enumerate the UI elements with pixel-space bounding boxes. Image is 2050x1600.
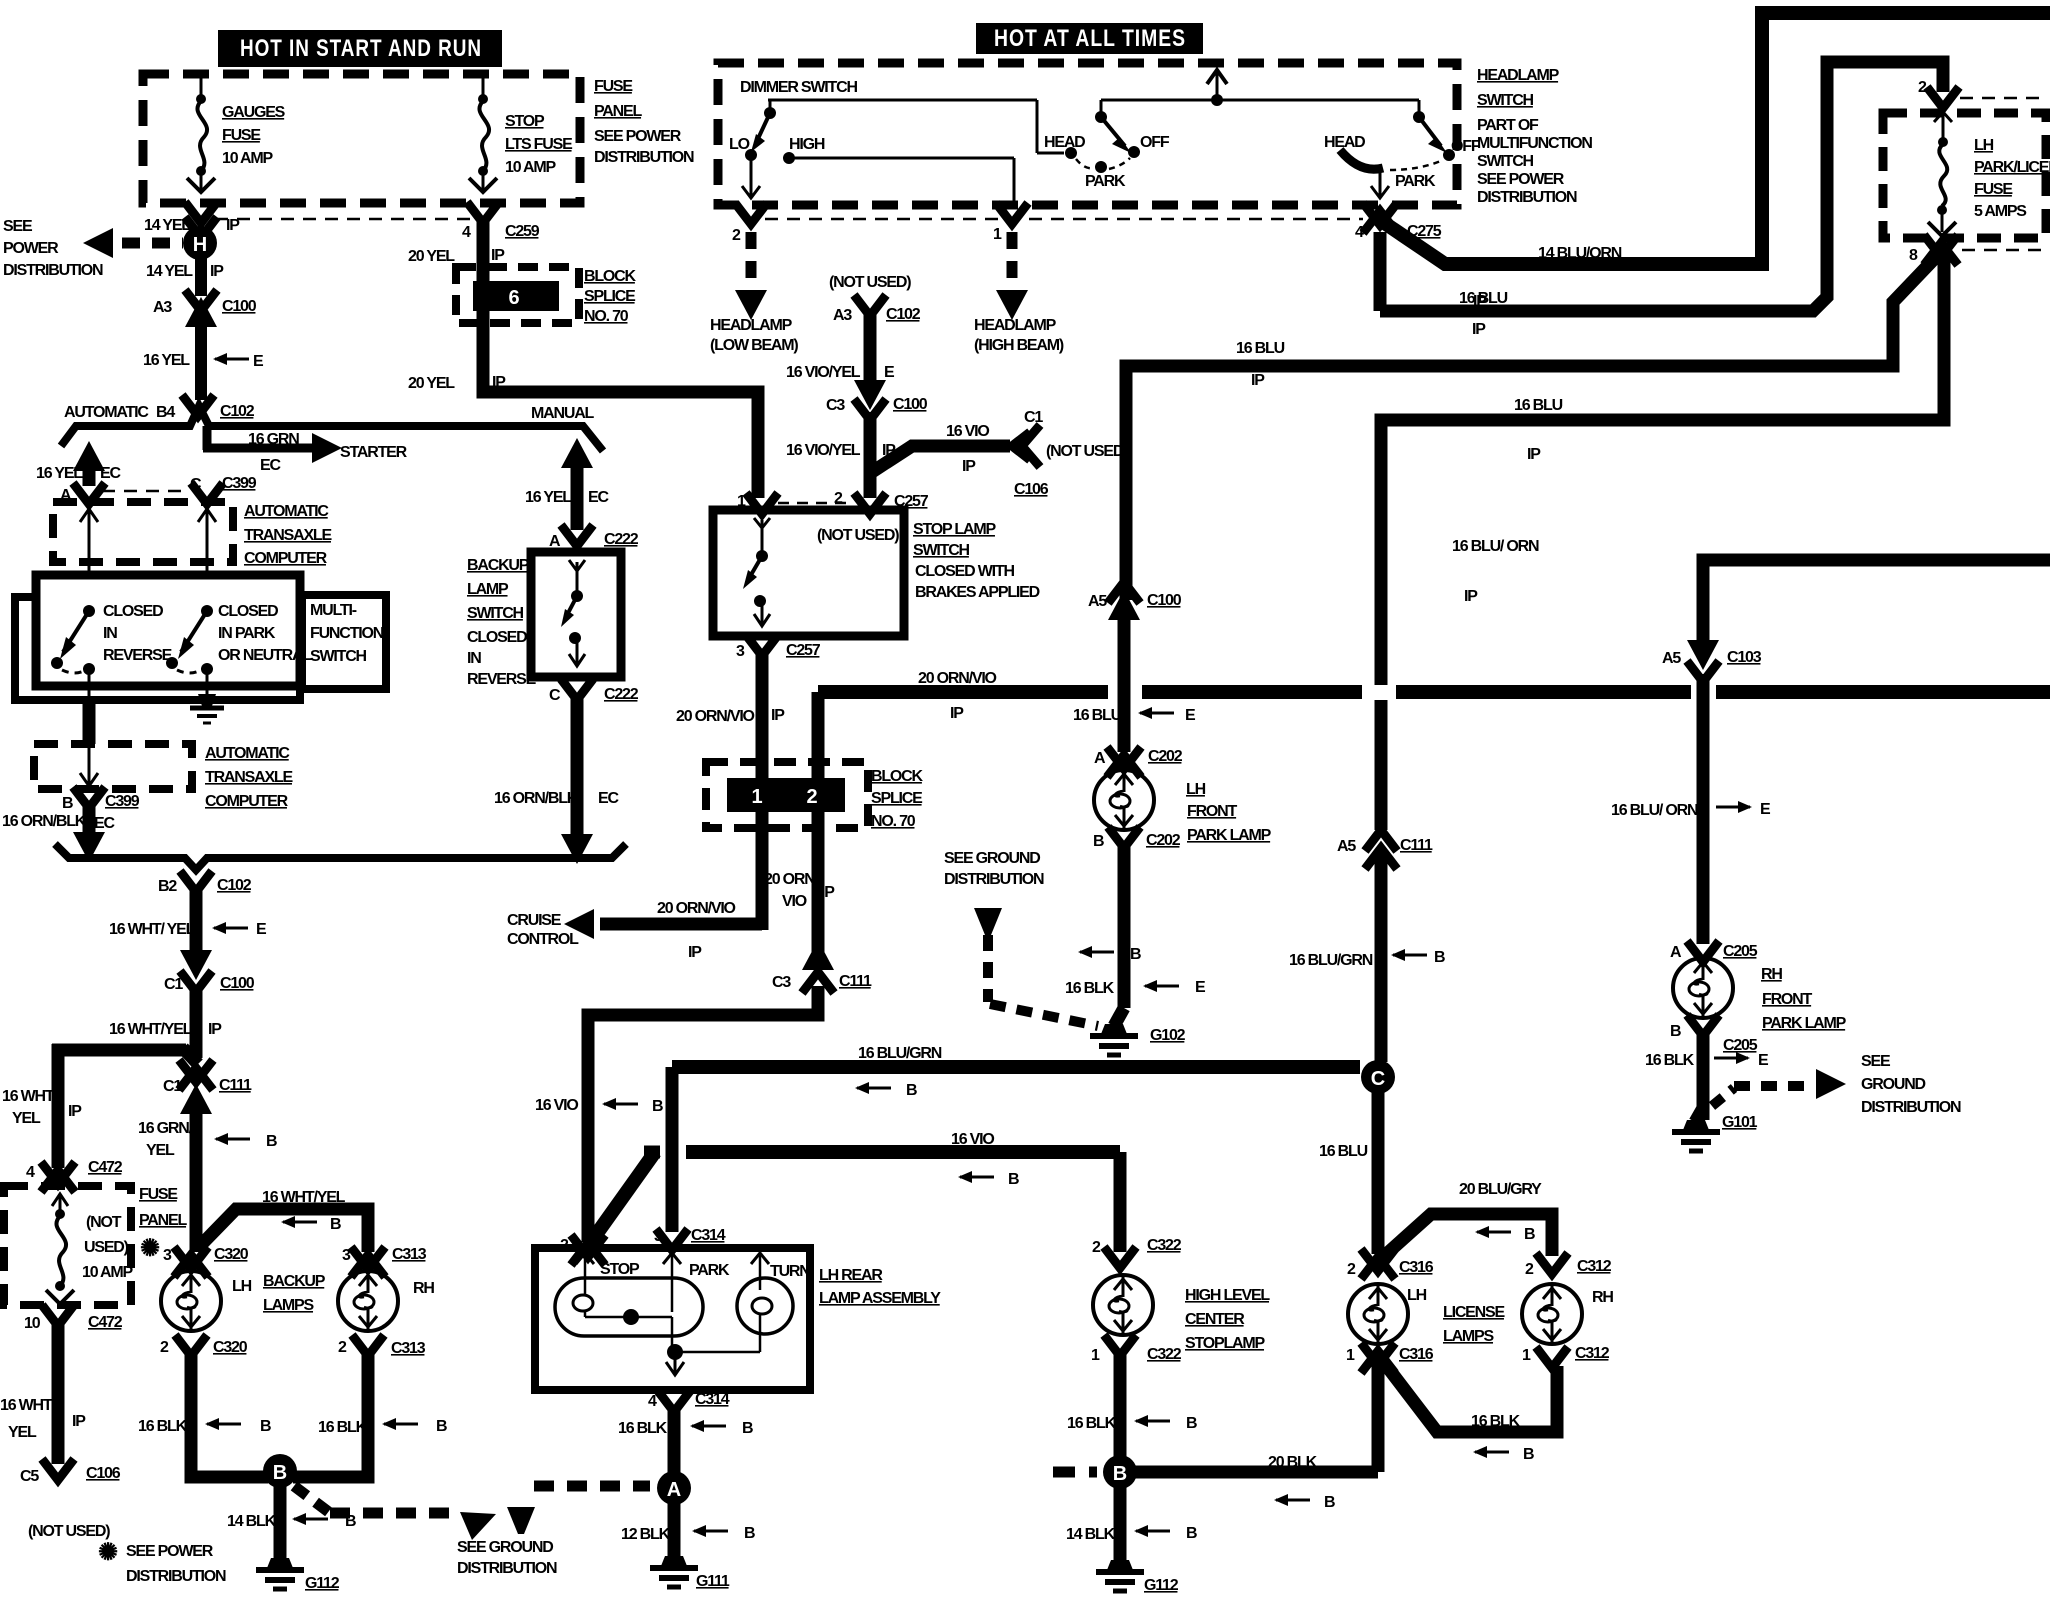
connector 10 C472: [24, 1305, 123, 1332]
svg-text:16 BLU: 16 BLU: [1073, 707, 1122, 724]
label closed in park or neutral: [218, 603, 312, 664]
connector C C399: [190, 475, 257, 504]
stop lts fuse F2: [469, 76, 497, 192]
svg-text:TRANSAXLE: TRANSAXLE: [205, 769, 294, 786]
svg-text:SWITCH: SWITCH: [1477, 153, 1534, 170]
svg-text:SPLICE: SPLICE: [584, 288, 636, 305]
label backup lamps: [263, 1273, 326, 1314]
svg-text:16 ORN/BLK: 16 ORN/BLK: [2, 813, 87, 830]
svg-text:TURN: TURN: [770, 1263, 810, 1280]
svg-text:20 YEL: 20 YEL: [408, 248, 455, 265]
svg-text:B: B: [1113, 1463, 1127, 1485]
svg-text:B: B: [744, 1525, 755, 1542]
svg-text:G102: G102: [1150, 1027, 1186, 1044]
svg-text:G101: G101: [1722, 1114, 1758, 1131]
svg-text:COMPUTER: COMPUTER: [205, 793, 289, 810]
svg-text:C1: C1: [164, 976, 183, 993]
svg-text:6: 6: [508, 287, 519, 309]
svg-text:16 VIO: 16 VIO: [535, 1097, 578, 1114]
svg-text:16 YEL: 16 YEL: [143, 352, 190, 369]
svg-text:B: B: [266, 1133, 277, 1150]
label block splice no 70: [871, 768, 924, 830]
svg-text:STOP: STOP: [600, 1261, 640, 1278]
svg-text:STOP: STOP: [505, 113, 545, 130]
svg-text:MANUAL: MANUAL: [531, 405, 595, 422]
svg-text:USED): USED): [84, 1239, 129, 1256]
wire 16 ORN/BLK EC: [2, 806, 115, 862]
svg-text:FUSE: FUSE: [139, 1186, 178, 1203]
switch closed in reverse: [51, 605, 95, 700]
wire 16 BLU to fuse pin2: [1380, 62, 1943, 338]
label 12 BLK B: [621, 1525, 755, 1543]
dashed link A-C: [102, 490, 186, 493]
label 16 WHT/YEL IP left: [2, 1088, 82, 1127]
svg-text:NO. 70: NO. 70: [871, 813, 916, 830]
svg-text:B: B: [1186, 1525, 1197, 1542]
svg-text:IN: IN: [467, 650, 481, 667]
svg-text:SWITCH: SWITCH: [310, 648, 367, 665]
label LH rear lamp assembly: [819, 1267, 941, 1307]
fuse not used 10 amp: [46, 1194, 74, 1304]
svg-text:C322: C322: [1147, 1237, 1182, 1254]
svg-text:LAMPS: LAMPS: [1443, 1328, 1495, 1345]
svg-text:C313: C313: [391, 1340, 426, 1357]
dashed box automatic transaxle computer (top): [53, 502, 233, 562]
wire 16 GRN/YEL B: [138, 1108, 277, 1252]
connector 2 C314: [560, 1235, 650, 1265]
backup lamp switch box: [531, 552, 621, 677]
svg-text:E: E: [1185, 707, 1196, 724]
svg-text:SPLICE: SPLICE: [871, 790, 923, 807]
wire 14 BLU/ORN top right: [1383, 13, 2050, 310]
svg-text:FRONT: FRONT: [1762, 991, 1813, 1008]
branch 16 VIO C1 not used: [872, 409, 1128, 498]
wire 16 BLU/ORN: [1452, 538, 2050, 645]
svg-text:HEAD: HEAD: [1324, 134, 1365, 151]
svg-text:CENTER: CENTER: [1185, 1311, 1245, 1328]
svg-text:2: 2: [338, 1339, 347, 1356]
svg-text:LO: LO: [729, 136, 750, 153]
svg-text:(NOT USED): (NOT USED): [1046, 443, 1128, 460]
svg-text:E: E: [253, 353, 264, 370]
svg-text:14 BLK: 14 BLK: [1066, 1526, 1116, 1543]
headlamp low beam dashed arrow: [710, 232, 798, 354]
svg-text:10 AMP: 10 AMP: [222, 150, 274, 167]
svg-text:C322: C322: [1147, 1346, 1182, 1363]
cruise control branch: [507, 900, 762, 961]
svg-text:16 BLU/GRN: 16 BLU/GRN: [858, 1045, 942, 1062]
svg-text:C102: C102: [217, 877, 252, 894]
svg-text:C1: C1: [1024, 409, 1043, 426]
svg-text:C472: C472: [88, 1159, 123, 1176]
label fuse panel star: [139, 1186, 187, 1262]
svg-text:DISTRIBUTION: DISTRIBUTION: [1477, 189, 1577, 206]
connector 2 below dimmer: [732, 203, 767, 244]
svg-text:C100: C100: [893, 396, 928, 413]
svg-text:B: B: [1434, 949, 1445, 966]
connector C3 C111: [772, 940, 872, 993]
svg-text:PARK LAMP: PARK LAMP: [1187, 827, 1272, 844]
manual branch arrow 16 YEL EC: [525, 438, 609, 530]
thin dashed connector line: [215, 218, 470, 221]
svg-text:(NOT USED): (NOT USED): [817, 527, 899, 544]
headlamp switch contacts right: [1324, 100, 1481, 198]
svg-text:3: 3: [342, 1247, 351, 1264]
labels 20 ORN VIO IP below splice: [764, 871, 835, 910]
wire 16 VIO/YEL E: [786, 312, 895, 386]
wire 16 BLK to G102: [1065, 842, 1206, 1026]
svg-text:IP: IP: [688, 944, 702, 961]
svg-text:DISTRIBUTION: DISTRIBUTION: [3, 262, 103, 279]
svg-text:PART OF: PART OF: [1477, 117, 1539, 134]
svg-text:5 AMPS: 5 AMPS: [1974, 203, 2027, 220]
connector 8: [1909, 235, 2046, 265]
wire 16 BLU E: [1073, 614, 1196, 752]
svg-text:B: B: [1523, 1446, 1534, 1463]
svg-text:16 BLU/ ORN: 16 BLU/ ORN: [1611, 802, 1698, 819]
title bar HOT IN START AND RUN: [218, 30, 502, 67]
svg-text:C399: C399: [222, 475, 257, 492]
svg-text:2: 2: [1525, 1261, 1534, 1278]
svg-text:G112: G112: [1144, 1577, 1179, 1594]
splice A: [657, 1471, 691, 1505]
svg-text:16 GRN/: 16 GRN/: [138, 1120, 194, 1137]
dashed arrow SEE POWER DISTRIBUTION: [83, 228, 183, 258]
svg-text:20 ORN/VIO: 20 ORN/VIO: [918, 670, 997, 687]
label LH front park lamp: [1186, 781, 1272, 844]
connector 3 C314: [654, 1227, 726, 1250]
svg-text:G111: G111: [696, 1573, 730, 1590]
wire 20 BLU/GRY: [1382, 1181, 1552, 1258]
svg-text:COMPUTER: COMPUTER: [244, 550, 328, 567]
svg-text:B: B: [1093, 833, 1104, 850]
connector 2 C316: [1347, 1249, 1434, 1279]
ground G112: [256, 1558, 340, 1592]
svg-text:SEE GROUND: SEE GROUND: [457, 1539, 553, 1556]
svg-text:LAMP ASSEMBLY: LAMP ASSEMBLY: [819, 1290, 941, 1307]
svg-text:EC: EC: [588, 489, 609, 506]
svg-text:REVERSE: REVERSE: [467, 671, 537, 688]
wire 20 ORN/VIO IP down: [676, 652, 785, 930]
svg-text:EC: EC: [94, 815, 115, 832]
wire 16 WHT/YEL IP: [109, 988, 222, 1058]
wire 16 BLU from pin8 to LH park lamp: [1126, 256, 1937, 600]
connector 4 C472: [26, 1159, 123, 1192]
svg-text:10: 10: [24, 1315, 41, 1332]
svg-text:IP: IP: [68, 1103, 82, 1120]
svg-text:LICENSE: LICENSE: [1443, 1304, 1505, 1321]
svg-text:SEE POWER: SEE POWER: [594, 128, 682, 145]
connector C C222: [549, 679, 639, 704]
stop lamp switch box: [713, 510, 904, 636]
svg-text:PARK: PARK: [1395, 173, 1436, 190]
svg-text:REVERSE: REVERSE: [103, 647, 173, 664]
connector 4 C259 below stop fuse: [462, 202, 540, 241]
svg-text:16 BLU/GRN: 16 BLU/GRN: [1289, 952, 1373, 969]
svg-text:SEE: SEE: [3, 218, 33, 235]
svg-text:B: B: [1670, 1023, 1681, 1040]
svg-text:C: C: [549, 687, 561, 704]
svg-text:HIGH LEVEL: HIGH LEVEL: [1185, 1287, 1270, 1304]
svg-text:C100: C100: [220, 975, 255, 992]
svg-text:4: 4: [1355, 224, 1364, 241]
RH license lamp: [1522, 1284, 1613, 1344]
svg-text:C205: C205: [1723, 943, 1758, 960]
wire 16 YEL: [143, 325, 264, 400]
wire 16 BLK to A: [618, 1408, 753, 1560]
svg-text:12 BLK: 12 BLK: [621, 1526, 671, 1543]
svg-text:IP: IP: [491, 247, 505, 264]
wire 14 YEL: [146, 258, 224, 296]
svg-text:FUSE: FUSE: [594, 78, 633, 95]
svg-text:16 BLU: 16 BLU: [1514, 397, 1563, 414]
label stop lamp switch: [913, 521, 1040, 601]
svg-text:AUTOMATIC: AUTOMATIC: [244, 503, 329, 520]
svg-text:16 ORN/BLK: 16 ORN/BLK: [494, 790, 579, 807]
svg-text:PANEL: PANEL: [594, 103, 642, 120]
svg-text:IP: IP: [210, 263, 224, 280]
svg-text:14 YEL: 14 YEL: [144, 217, 191, 234]
20 ORN/VIO horizontal wire: [818, 670, 2050, 722]
svg-text:LH: LH: [232, 1278, 252, 1295]
svg-text:C202: C202: [1148, 748, 1183, 765]
label automatic transaxle computer 2: [205, 745, 294, 810]
svg-text:B: B: [1130, 946, 1141, 963]
svg-text:IP: IP: [1527, 446, 1541, 463]
svg-text:2: 2: [806, 786, 817, 808]
svg-text:SWITCH: SWITCH: [913, 542, 970, 559]
elbow to 16 VIO column: [588, 986, 818, 1242]
svg-text:1: 1: [1522, 1347, 1531, 1364]
connector 1 C316: [1346, 1343, 1434, 1373]
diagonal wire 16 WHT/YEL to RH: [199, 1189, 368, 1252]
label LH park/license fuse 5 amps: [1974, 137, 2050, 220]
headlamp high beam dashed arrow: [974, 232, 1064, 354]
label RH front park lamp: [1761, 966, 1847, 1032]
svg-text:FUSE: FUSE: [222, 127, 261, 144]
svg-text:16 WHT/ YEL: 16 WHT/ YEL: [109, 921, 196, 938]
connector C5 C106: [20, 1459, 121, 1540]
connector 2 C320: [160, 1335, 248, 1356]
svg-text:16 YEL: 16 YEL: [36, 465, 83, 482]
title bar HOT AT ALL TIMES: [976, 23, 1203, 54]
svg-text:PARK: PARK: [689, 1262, 730, 1279]
svg-text:(HIGH BEAM): (HIGH BEAM): [974, 337, 1064, 354]
RH backup lamp: [338, 1271, 434, 1331]
svg-text:SEE GROUND: SEE GROUND: [944, 850, 1040, 867]
svg-text:C222: C222: [604, 531, 639, 548]
headlamp switch contacts left: [1037, 100, 1170, 190]
dashed ground wire right: [1712, 1069, 1846, 1106]
left branch arrow 16 YEL EC: [36, 441, 121, 486]
svg-text:E: E: [1195, 979, 1206, 996]
svg-text:A: A: [1094, 750, 1106, 767]
16 BLU/GRN wire to C: [672, 1045, 1360, 1232]
svg-text:10 AMP: 10 AMP: [505, 159, 557, 176]
connector 2 C322: [1092, 1237, 1182, 1268]
svg-text:(NOT USED): (NOT USED): [28, 1523, 110, 1540]
fuse panel dashed box bottom left: [4, 1186, 131, 1305]
svg-text:SWITCH: SWITCH: [1477, 92, 1534, 109]
svg-text:C314: C314: [691, 1227, 726, 1244]
svg-text:IP: IP: [72, 1413, 86, 1430]
LH license lamp: [1348, 1284, 1427, 1344]
block splice no 70 top: [456, 267, 579, 323]
svg-text:16 WHT/YEL: 16 WHT/YEL: [262, 1189, 346, 1206]
junction C1 C111: [163, 1060, 252, 1114]
svg-text:16 YEL: 16 YEL: [525, 489, 572, 506]
svg-text:1: 1: [751, 786, 762, 808]
ground under switch: [190, 694, 224, 723]
svg-text:16 BLK: 16 BLK: [1645, 1052, 1695, 1069]
svg-text:CLOSED: CLOSED: [467, 629, 527, 646]
block splice no 70 dashed box: [706, 762, 868, 828]
connector 1 C312: [1522, 1345, 1610, 1368]
LH front park lamp: [1094, 770, 1154, 830]
connector B C399: [62, 787, 140, 812]
svg-text:E: E: [1758, 1052, 1769, 1069]
svg-text:14 BLU/ORN: 14 BLU/ORN: [1538, 245, 1622, 262]
svg-text:C472: C472: [88, 1314, 123, 1331]
svg-text:E: E: [256, 921, 267, 938]
svg-text:C106: C106: [1014, 481, 1049, 498]
label 16 VIO B: [535, 1097, 663, 1115]
connector A C222: [549, 525, 639, 550]
label headlamp switch part of multifunction: [1477, 67, 1592, 206]
connector 4 C314: [648, 1391, 730, 1412]
svg-text:A: A: [667, 1479, 681, 1501]
svg-text:16 BLU: 16 BLU: [1459, 290, 1508, 307]
svg-text:CLOSED: CLOSED: [103, 603, 163, 620]
switch closed in park or neutral: [166, 605, 213, 694]
ground G102: [1090, 1024, 1186, 1055]
svg-text:H: H: [193, 234, 207, 256]
connector 3 C313: [342, 1246, 427, 1277]
svg-text:IP: IP: [1251, 372, 1265, 389]
wire 16 BLK license: [1382, 1360, 1557, 1463]
svg-text:STARTER: STARTER: [340, 444, 408, 461]
svg-text:C100: C100: [1147, 592, 1182, 609]
svg-text:A3: A3: [833, 307, 852, 324]
svg-text:A5: A5: [1662, 650, 1681, 667]
wire to lower computer box: [83, 700, 96, 744]
label see ground distribution: [457, 1539, 557, 1577]
svg-text:C313: C313: [392, 1246, 427, 1263]
svg-text:LH: LH: [1974, 137, 1994, 154]
svg-text:OFF: OFF: [1140, 134, 1170, 151]
label fuse panel: [594, 78, 694, 166]
label AUTOMATIC / MANUAL: [64, 404, 595, 422]
ground G101: [1672, 1114, 1758, 1151]
svg-text:BLOCK: BLOCK: [871, 768, 924, 785]
connector A C202: [1094, 747, 1183, 777]
svg-text:DISTRIBUTION: DISTRIBUTION: [944, 871, 1044, 888]
svg-text:20 BLU/GRY: 20 BLU/GRY: [1459, 1181, 1542, 1198]
svg-text:C106: C106: [86, 1465, 121, 1482]
connector 1 C322: [1091, 1335, 1182, 1364]
svg-text:16 BLU/ ORN: 16 BLU/ ORN: [1452, 538, 1539, 555]
svg-text:HEADLAMP: HEADLAMP: [974, 317, 1057, 334]
svg-text:16 BLU: 16 BLU: [1236, 340, 1285, 357]
svg-text:HOT AT ALL TIMES: HOT AT ALL TIMES: [994, 25, 1186, 52]
svg-text:A: A: [549, 533, 561, 550]
svg-text:NO. 70: NO. 70: [584, 308, 629, 325]
svg-text:LAMP: LAMP: [467, 581, 509, 598]
svg-text:HEAD: HEAD: [1044, 134, 1085, 151]
wire 14 BLK to ground: [227, 1485, 356, 1562]
svg-text:GROUND: GROUND: [1861, 1076, 1926, 1093]
svg-text:16 VIO/YEL: 16 VIO/YEL: [786, 364, 861, 381]
svg-text:8: 8: [1909, 247, 1918, 264]
label backup lamp switch closed in reverse: [467, 557, 537, 688]
svg-text:B: B: [62, 795, 73, 812]
svg-text:BLOCK: BLOCK: [584, 268, 637, 285]
splice H: [183, 226, 217, 260]
svg-text:16 BLK: 16 BLK: [1065, 980, 1115, 997]
connector A C205: [1670, 941, 1758, 962]
connector A5 C103: [1662, 640, 1762, 682]
starter tee 16 GRN: [203, 426, 408, 474]
svg-text:✺: ✺: [98, 1539, 118, 1566]
svg-text:4: 4: [26, 1164, 35, 1181]
svg-text:C111: C111: [1400, 837, 1433, 854]
svg-text:CLOSED: CLOSED: [218, 603, 278, 620]
svg-text:CONTROL: CONTROL: [507, 931, 579, 948]
svg-text:RH: RH: [1761, 966, 1782, 983]
RH front park lamp: [1673, 958, 1733, 1018]
svg-text:IP: IP: [492, 374, 506, 391]
connector B C205: [1670, 1015, 1758, 1054]
svg-text:16 BLK: 16 BLK: [618, 1420, 668, 1437]
wire splice column x818: [812, 692, 825, 952]
LH front park lamp column: connector A5 C100: [1088, 582, 1182, 620]
wire 16 ORN/BLK EC manual: [494, 698, 619, 864]
lamp assembly interior: [555, 1253, 810, 1375]
wire 16 BLU to license lamps: [1319, 1092, 1378, 1254]
svg-text:A5: A5: [1088, 593, 1107, 610]
svg-text:FUNCTION: FUNCTION: [310, 625, 384, 642]
elbow wire to fuse panel: [52, 1044, 198, 1168]
label closed in reverse: [103, 603, 173, 664]
dimmer switch symbol: [729, 100, 1064, 205]
svg-text:HEADLAMP: HEADLAMP: [1477, 67, 1560, 84]
wire 16 WHT/YEL E: [109, 890, 267, 955]
connector C1 C100: [164, 950, 255, 993]
multi-function switch label box: [302, 595, 386, 689]
svg-text:BACKUP: BACKUP: [263, 1273, 326, 1290]
svg-text:2: 2: [160, 1339, 169, 1356]
splice B: [263, 1454, 297, 1488]
svg-text:YEL: YEL: [146, 1142, 175, 1159]
svg-text:AUTOMATIC: AUTOMATIC: [205, 745, 290, 762]
svg-text:B2: B2: [158, 878, 177, 895]
svg-text:LH: LH: [1407, 1287, 1427, 1304]
svg-text:16 BLK: 16 BLK: [318, 1419, 368, 1436]
svg-text:B: B: [906, 1082, 917, 1099]
svg-text:PARK/LICENSE: PARK/LICENSE: [1974, 159, 2050, 176]
svg-text:20 YEL: 20 YEL: [408, 375, 455, 392]
svg-text:IP: IP: [821, 884, 835, 901]
svg-text:LH REAR: LH REAR: [819, 1267, 883, 1284]
svg-text:LTS FUSE: LTS FUSE: [505, 136, 573, 153]
svg-text:C100: C100: [222, 298, 257, 315]
svg-text:DISTRIBUTION: DISTRIBUTION: [1861, 1099, 1961, 1116]
svg-text:STOP LAMP: STOP LAMP: [913, 521, 996, 538]
connector 2 into fuse: [1918, 79, 2046, 108]
svg-text:2: 2: [1092, 1239, 1101, 1256]
svg-text:C103: C103: [1727, 649, 1762, 666]
wire 16 BLU from pin8 to A5 C111: [1381, 256, 1944, 830]
